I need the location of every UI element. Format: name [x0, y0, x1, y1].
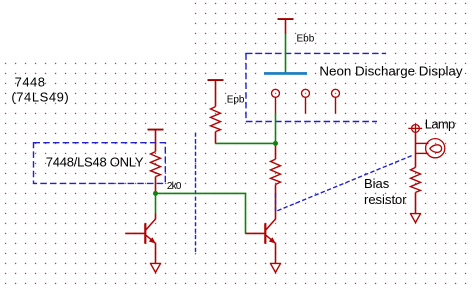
dashed annotation box 7448/LS48 ONLY [34, 143, 166, 184]
resistor R-collector (middle) [271, 159, 281, 184]
wire Epb to node (horizontal) [216, 142, 276, 144]
resistor R-bias [411, 167, 421, 192]
power supply Ebb (bar symbol) [278, 18, 294, 34]
node junction dot under 2k0 resistor [153, 191, 158, 196]
svg-text:7448/LS48 ONLY: 7448/LS48 ONLY [46, 155, 144, 170]
neon cathode pin 3 [332, 89, 340, 113]
resistor R 2k0 [151, 152, 161, 177]
wire green bus junction to Q2 base [156, 193, 246, 233]
wire Q2 emitter to ground [275, 243, 277, 263]
svg-text:Epb: Epb [227, 95, 245, 106]
svg-text:Neon Discharge Display: Neon Discharge Display [319, 63, 462, 78]
transistor Q2 [246, 219, 276, 244]
terminal (circled cross) above lamp [408, 124, 422, 132]
wire Epb resistor lead down [215, 132, 217, 144]
svg-text:Ebb: Ebb [297, 34, 315, 45]
wire bias resistor to ground [415, 192, 417, 213]
wire node to collector resistor [275, 145, 277, 159]
svg-text:2k0: 2k0 [167, 181, 182, 192]
wire 2k0 resistor to node [155, 177, 157, 192]
node junction dot at cathode column [273, 141, 278, 146]
ground under Q2 [270, 263, 281, 272]
dashed IC boundary separator line [195, 133, 197, 255]
dashed annotation box Neon Discharge Display (top, left, bottom edges) [246, 53, 386, 121]
lamp LP1 (circle with filament loop) [416, 139, 445, 168]
neon cathode pin 1 [272, 89, 280, 113]
neon cathode pin 2 [302, 89, 310, 113]
neon display anode bar [264, 72, 307, 75]
svg-text:Bias: Bias [364, 176, 390, 191]
svg-text:resistor: resistor [364, 192, 407, 207]
wire cathode1 down to node [275, 113, 277, 143]
svg-text:7448: 7448 [15, 75, 46, 90]
svg-text:Lamp: Lamp [425, 116, 455, 131]
transistor Q1 [126, 213, 156, 243]
dashed callout line to lamp [276, 156, 413, 212]
power supply bar above 2k0 resistor [148, 129, 164, 152]
ground under Q1 [150, 263, 161, 272]
wire Q1 emitter to ground [155, 243, 157, 263]
resistor R-anode (Epb dropper) [211, 107, 221, 132]
wire 2k0 node down to Q1 collector [155, 193, 157, 213]
svg-text:(74LS49): (74LS49) [11, 89, 69, 104]
ground under bias resistor [410, 214, 421, 223]
wire terminal to lamp [415, 132, 417, 143]
wire Ebb to neon anode [285, 34, 287, 73]
power supply Epb (bar symbol) [208, 79, 224, 107]
wire collector resistor to Q2 collector [275, 185, 277, 220]
